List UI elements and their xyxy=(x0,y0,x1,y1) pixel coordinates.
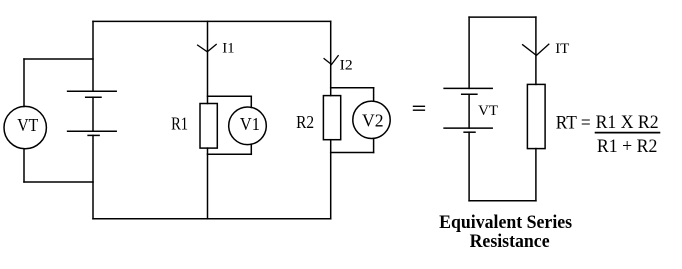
svg-text:I2: I2 xyxy=(340,58,353,74)
svg-text:R1 + R2: R1 + R2 xyxy=(597,136,658,157)
svg-text:Equivalent Series: Equivalent Series xyxy=(439,212,572,233)
svg-text:R1: R1 xyxy=(171,113,188,133)
svg-text:R1 X R2: R1 X R2 xyxy=(596,112,659,133)
svg-text:V2: V2 xyxy=(362,111,384,131)
svg-text:R2: R2 xyxy=(296,112,314,132)
svg-text:RT =: RT = xyxy=(556,113,591,134)
svg-text:I1: I1 xyxy=(222,40,235,56)
svg-text:Resistance: Resistance xyxy=(470,231,550,252)
svg-text:V1: V1 xyxy=(240,114,260,134)
svg-text:IT: IT xyxy=(555,41,569,57)
svg-text:VT: VT xyxy=(17,115,38,135)
svg-text:VT: VT xyxy=(478,103,498,119)
